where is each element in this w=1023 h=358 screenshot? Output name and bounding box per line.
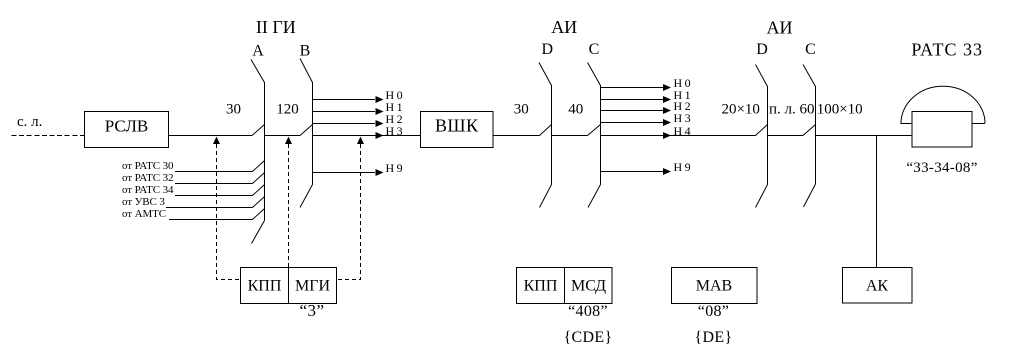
wire H4 output of C continuing to second АИ: [601, 124, 756, 139]
svg-text:от РАТС 34: от РАТС 34: [122, 184, 174, 196]
wire с.л. incoming dashed trunk: [12, 135, 85, 137]
label 30 capacity: [514, 102, 529, 118]
svg-text:“3”: “3”: [299, 301, 324, 320]
label DE: [695, 329, 733, 346]
box РСЛВ: [85, 112, 169, 148]
svg-text:РАТС 33: РАТС 33: [911, 40, 983, 60]
label АИ stage header first: [551, 17, 577, 37]
selector C field (АИ first): [588, 63, 601, 208]
selector B field (II ГИ): [300, 59, 313, 208]
label АИ stage header second: [767, 18, 793, 38]
svg-text:Н 4: Н 4: [674, 124, 691, 138]
box ВШК: [421, 112, 494, 148]
svg-text:от УВС 3: от УВС 3: [122, 196, 165, 208]
svg-text:20×10: 20×10: [721, 102, 759, 118]
svg-text:30: 30: [226, 102, 241, 118]
label от АМТС: [122, 208, 166, 220]
wire РСЛВ to selector A with wiper jog: [169, 125, 265, 136]
svg-text:АК: АК: [866, 278, 889, 295]
wire C to subscriber set: [816, 135, 913, 137]
label 120 capacity: [276, 102, 299, 118]
label от РАТС 32: [122, 172, 173, 184]
wiper jog into selector D second: [756, 125, 768, 136]
label от УВС 3: [122, 196, 165, 208]
wire D to C with wiper jog: [552, 125, 601, 136]
wire ВШК to selector D with wiper jog: [493, 125, 552, 136]
svg-text:КПП: КПП: [524, 278, 558, 295]
svg-text:ВШК: ВШК: [435, 116, 479, 136]
control wire dashed middle to МГИ: [285, 137, 292, 268]
wire from РАТС 30: [175, 161, 265, 172]
label РАТС 33: [911, 40, 983, 60]
wire H2 output of B: [313, 112, 403, 127]
selector D field (АИ first): [539, 63, 552, 208]
label C: [805, 41, 816, 58]
label B: [300, 43, 311, 60]
svg-text:Н 3: Н 3: [386, 124, 403, 138]
label II ГИ stage header: [256, 17, 296, 37]
svg-text:А: А: [252, 43, 264, 60]
label от РАТС 34: [122, 184, 174, 196]
wire H9 output of C: [601, 160, 691, 175]
svg-text:РСЛВ: РСЛВ: [105, 117, 148, 136]
svg-text:Н 9: Н 9: [674, 160, 691, 174]
label от РАТС 30: [122, 160, 174, 172]
selector C field (АИ second): [803, 65, 816, 208]
label 100x10 capacity: [817, 102, 863, 118]
selector D field (АИ second): [756, 65, 768, 208]
svg-text:“408”: “408”: [568, 303, 608, 320]
svg-text:с. л.: с. л.: [17, 114, 42, 130]
svg-text:{CDE}: {CDE}: [564, 329, 613, 346]
label 33-34-08 subscriber number: [906, 160, 977, 176]
wire H2 output of C: [601, 99, 691, 114]
svg-text:“08”: “08”: [698, 303, 729, 320]
svg-text:от РАТС 32: от РАТС 32: [122, 172, 173, 184]
wire from АМТС: [169, 209, 265, 220]
svg-text:120: 120: [276, 102, 299, 118]
label digits 408: [568, 303, 608, 320]
svg-text:МГИ: МГИ: [295, 278, 330, 295]
wire from РАТС 34: [175, 185, 265, 196]
svg-text:D: D: [542, 41, 554, 58]
wire H9 output of B: [313, 161, 403, 176]
wire H3 output of C: [601, 111, 691, 126]
svg-text:“33-34-08”: “33-34-08”: [906, 160, 977, 176]
label digits 08: [698, 303, 729, 320]
label C: [589, 41, 600, 58]
svg-text:от АМТС: от АМТС: [122, 208, 166, 220]
svg-text:АИ: АИ: [551, 17, 577, 37]
wire H0 output of C: [601, 76, 691, 91]
wire H0 output of B: [313, 88, 403, 103]
label digit 3: [299, 301, 324, 320]
wire from УВС 3: [166, 197, 265, 208]
svg-text:КПП: КПП: [248, 278, 282, 295]
wire A to selector B with wiper jog: [265, 125, 313, 136]
wire branch down to АК: [876, 136, 878, 269]
svg-text:Н 3: Н 3: [674, 111, 691, 125]
telephone set body: [912, 112, 972, 148]
svg-text:C: C: [589, 41, 600, 58]
label с. л.: [17, 114, 42, 130]
label D: [756, 41, 768, 58]
svg-text:АИ: АИ: [767, 18, 793, 38]
svg-text:30: 30: [514, 102, 529, 118]
svg-text:40: 40: [568, 102, 583, 118]
label D: [542, 41, 554, 58]
svg-text:{DE}: {DE}: [695, 329, 733, 346]
label 20x10 capacity: [721, 102, 759, 118]
wire H1 output of C: [601, 88, 691, 103]
label п. л. 60: [769, 102, 815, 118]
box МАВ: [672, 268, 758, 304]
selector A field (II ГИ): [251, 60, 265, 244]
label CDE: [564, 329, 613, 346]
svg-text:МСД: МСД: [571, 278, 606, 295]
svg-text:МАВ: МАВ: [696, 278, 732, 295]
svg-text:п. л. 60: п. л. 60: [769, 102, 815, 118]
wire H3 output of B continuing to ВШК: [313, 124, 421, 139]
box КПП МСД register: [517, 268, 613, 304]
svg-text:II ГИ: II ГИ: [256, 17, 296, 37]
label A: [252, 43, 264, 60]
svg-text:Н 9: Н 9: [386, 161, 403, 175]
wire from РАТС 32: [175, 173, 265, 184]
wire D to C with wiper jog (АИ second): [768, 125, 816, 136]
svg-text:от РАТС 30: от РАТС 30: [122, 160, 174, 172]
svg-text:C: C: [805, 41, 816, 58]
svg-text:100×10: 100×10: [817, 102, 863, 118]
telephone set handset dome: [901, 86, 986, 123]
label 30 capacity: [226, 102, 241, 118]
box КПП МГИ register: [241, 268, 337, 304]
control wire dashed right to МГИ: [337, 137, 365, 280]
wire H1 output of B: [313, 100, 403, 115]
label 40 capacity: [568, 102, 583, 118]
control wire dashed left to КПП: [213, 137, 241, 280]
svg-text:В: В: [300, 43, 311, 60]
box АК: [843, 268, 913, 304]
svg-text:D: D: [756, 41, 768, 58]
